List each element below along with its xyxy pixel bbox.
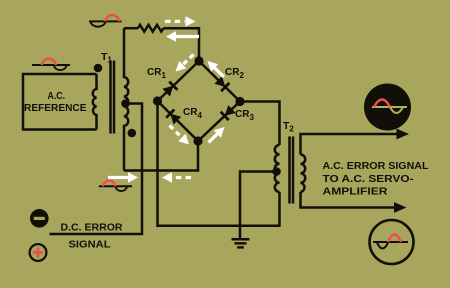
diode CR4 bbox=[166, 110, 181, 125]
svg-text:A.C.: A.C. bbox=[48, 91, 66, 102]
transformer T1 core bbox=[111, 61, 115, 134]
svg-text:REFERENCE: REFERENCE bbox=[24, 103, 87, 114]
bridge edge: top-right (CR2 branch) bbox=[199, 61, 240, 102]
transformer T1 primary winding bbox=[93, 74, 97, 130]
svg-text:AMPLIFIER: AMPLIFIER bbox=[323, 186, 388, 198]
wire: resistor to bridge top node bbox=[164, 28, 200, 61]
waveform icon: inverted phase above T1 bbox=[89, 15, 122, 27]
waveform display: servo amplifier input (outline scope) bbox=[370, 220, 414, 264]
wire: T1 center tap to D.C. error signal bbox=[50, 104, 143, 235]
current flow arrow (solid, along CR3 edge, up-right) bbox=[209, 127, 225, 143]
junction dot: T2 primary center tap bbox=[272, 167, 281, 176]
junction dot: bridge left node bbox=[153, 96, 162, 105]
junction dot: T1 secondary center tap bbox=[121, 99, 130, 108]
bridge edge: left-top (CR1 branch) bbox=[158, 61, 200, 101]
current flow arrow (solid, top wire, leftward) bbox=[166, 31, 199, 41]
transformer T2 secondary winding bbox=[301, 155, 306, 193]
wire: T2 secondary top output lead bbox=[301, 134, 398, 155]
wire: T2 secondary bottom output lead bbox=[301, 192, 395, 208]
diode CR2 bbox=[214, 76, 229, 91]
phase dot: T1 secondary bbox=[128, 129, 137, 138]
wire: bridge right node to T2 primary top bbox=[240, 102, 280, 146]
current flow arrow (solid, D.C. input, rightward) bbox=[108, 172, 138, 182]
ground bbox=[232, 239, 250, 247]
A.C. REFERENCE box bbox=[23, 74, 97, 130]
waveform icon: A.C. reference input bbox=[32, 59, 70, 70]
transformer T2 core bbox=[290, 137, 294, 204]
waveform display: A.C. error output (filled scope) bbox=[364, 84, 411, 131]
junction dot: bridge top node bbox=[194, 56, 203, 65]
bridge edge: right-bottom (CR3 branch) bbox=[198, 102, 240, 142]
current flow arrow (dashed, along CR1 edge, down-left) bbox=[176, 55, 194, 72]
diode CR3 bbox=[221, 105, 236, 120]
resistor bbox=[138, 25, 164, 32]
current flow arrow (dashed, top wire, rightward) bbox=[165, 16, 196, 26]
svg-text:TO A.C. SERVO-: TO A.C. SERVO- bbox=[323, 173, 415, 185]
D.C. polarity symbol: plus bbox=[30, 244, 47, 261]
svg-text:SIGNAL: SIGNAL bbox=[69, 240, 111, 251]
current flow arrow (solid, along CR2 edge, up-left) bbox=[208, 61, 225, 77]
svg-text:A.C. ERROR SIGNAL: A.C. ERROR SIGNAL bbox=[323, 160, 430, 172]
junction dot: bridge right node bbox=[235, 97, 244, 106]
diode CR1 bbox=[162, 82, 177, 97]
D.C. polarity symbol: minus bbox=[30, 209, 49, 228]
wire: T1 secondary bottom to bridge bottom bbox=[124, 141, 198, 171]
phase dot: T1 primary bbox=[94, 64, 103, 73]
waveform icon: near D.C. error input bbox=[99, 180, 132, 191]
output arrowhead (top, to servo amplifier) bbox=[397, 129, 410, 140]
bridge edge: bottom-left (CR4 branch) bbox=[158, 101, 199, 141]
current flow arrow (dashed, along CR4 edge, down-right) bbox=[170, 126, 190, 145]
wire: T1 secondary top to resistor bbox=[124, 27, 138, 30]
svg-text:D.C. ERROR: D.C. ERROR bbox=[61, 223, 124, 234]
wire: T2 center tap to ground stem bbox=[240, 172, 277, 239]
wire: bridge left node down and along bottom to T2 primary bottom bbox=[158, 101, 280, 226]
output arrowhead (bottom) bbox=[394, 202, 407, 213]
junction dot: bridge bottom node bbox=[193, 136, 202, 145]
transformer T2 primary winding bbox=[275, 145, 280, 192]
current flow arrow (dashed, mid wire, leftward) bbox=[162, 172, 191, 182]
transformer T1 secondary winding bbox=[124, 28, 128, 170]
